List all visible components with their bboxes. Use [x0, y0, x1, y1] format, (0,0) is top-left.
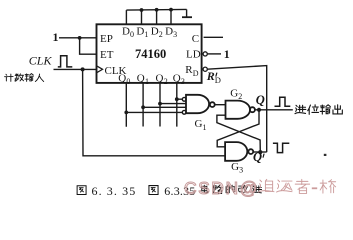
svg-text:D: D: [215, 75, 221, 85]
svg-text:D: D: [193, 69, 199, 78]
svg-text:1: 1: [203, 123, 207, 132]
svg-text:ET: ET: [100, 49, 114, 61]
svg-text:D: D: [165, 26, 173, 38]
svg-text:2: 2: [164, 77, 168, 86]
svg-text:3: 3: [173, 30, 177, 39]
svg-text:C: C: [192, 33, 199, 45]
svg-text:G: G: [195, 118, 203, 130]
svg-text:EP: EP: [100, 33, 113, 45]
svg-text:2: 2: [159, 30, 163, 39]
svg-text:0: 0: [130, 30, 134, 39]
svg-text:R: R: [206, 69, 215, 83]
svg-text:1: 1: [144, 30, 148, 39]
svg-text:D: D: [151, 26, 159, 38]
svg-text:Q: Q: [137, 72, 145, 84]
svg-text:Q: Q: [256, 93, 265, 107]
svg-text:Q: Q: [156, 72, 164, 84]
svg-text:G: G: [230, 88, 238, 100]
svg-text:3: 3: [181, 77, 185, 86]
svg-text:D: D: [136, 26, 144, 38]
svg-text:6. 3. 35: 6. 3. 35: [92, 184, 137, 198]
svg-text:D: D: [122, 26, 130, 38]
svg-text:Q: Q: [253, 150, 262, 164]
svg-text:1: 1: [224, 47, 230, 61]
svg-text:2: 2: [238, 92, 242, 101]
svg-text:74160: 74160: [135, 47, 166, 61]
svg-text:1: 1: [145, 77, 149, 86]
svg-text:LD: LD: [186, 49, 201, 61]
svg-text:CSDN@: CSDN@: [184, 178, 259, 198]
svg-text:Q: Q: [173, 72, 181, 84]
svg-text:G: G: [231, 161, 239, 173]
svg-text:0: 0: [126, 77, 130, 86]
svg-text:CLK: CLK: [29, 54, 53, 68]
svg-text:3: 3: [239, 165, 243, 174]
svg-text:1: 1: [53, 30, 59, 44]
svg-text:Q: Q: [118, 72, 126, 84]
